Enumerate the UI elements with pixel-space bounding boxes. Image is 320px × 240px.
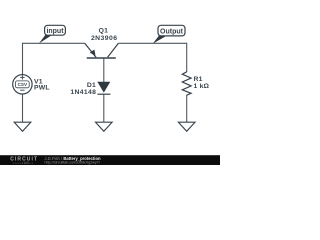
svg-text:PWL: PWL bbox=[34, 84, 50, 91]
svg-text:CSV: CSV bbox=[18, 82, 28, 87]
svg-text:⌁⌁⌁⌁LAB⌁⌁: ⌁⌁⌁⌁LAB⌁⌁ bbox=[13, 161, 34, 165]
svg-text:http://circuitlab.com/c6t8c0g2: http://circuitlab.com/c6t8c0g2wy7/ bbox=[45, 161, 101, 165]
svg-text:2N3906: 2N3906 bbox=[91, 35, 118, 42]
svg-text:Output: Output bbox=[160, 28, 184, 35]
svg-text:input: input bbox=[46, 28, 64, 35]
svg-text:1 kΩ: 1 kΩ bbox=[194, 83, 210, 90]
svg-text:Q1: Q1 bbox=[99, 28, 108, 35]
svg-text:R1: R1 bbox=[194, 76, 203, 83]
svg-text:1N4148: 1N4148 bbox=[70, 89, 96, 96]
